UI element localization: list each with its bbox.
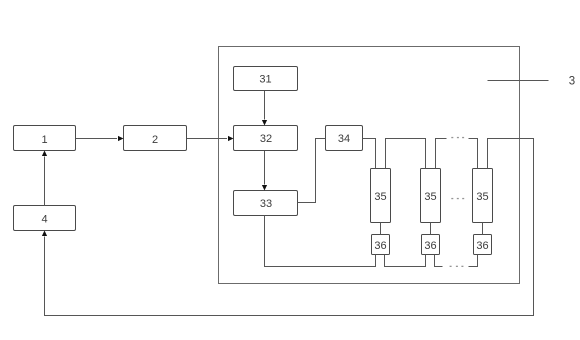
arrowhead into 1 xyxy=(42,151,47,157)
svg-text:4: 4 xyxy=(41,214,47,226)
block 31 xyxy=(234,67,298,91)
wire 34 to 35 first xyxy=(363,139,376,169)
stub 35 first to 36 first xyxy=(380,223,382,235)
wire 33 to 34 xyxy=(298,139,326,203)
svg-text:32: 32 xyxy=(260,133,272,145)
svg-text:1: 1 xyxy=(41,134,47,146)
svg-text:31: 31 xyxy=(259,74,271,86)
svg-text:35: 35 xyxy=(424,191,436,203)
block 33 xyxy=(234,191,298,216)
wire 36 first to 36 second xyxy=(385,255,426,267)
wire 1 to 2 xyxy=(76,138,117,140)
svg-text:34: 34 xyxy=(338,133,350,145)
stub 35 second to 36 second xyxy=(430,223,432,235)
wire 35 first to 35 second xyxy=(386,139,426,169)
svg-text:3: 3 xyxy=(569,76,575,88)
svg-text:36: 36 xyxy=(424,240,436,252)
block 35 first xyxy=(371,169,391,223)
wire ellipsis to 35 third xyxy=(469,139,478,169)
block 36 first xyxy=(372,235,390,255)
block 2 xyxy=(124,126,187,151)
svg-text:36: 36 xyxy=(476,240,488,252)
arrowhead into 2 xyxy=(118,136,124,141)
arrowhead into 32 top xyxy=(262,120,267,126)
ellipsis top xyxy=(451,137,464,138)
arrowhead into 4 bottom xyxy=(42,231,47,237)
enclosure box 3 xyxy=(219,47,520,284)
arrowhead into 32 xyxy=(228,136,234,141)
block 1 xyxy=(14,126,76,151)
block 35 second xyxy=(421,169,441,223)
wire 4 to 1 xyxy=(44,157,46,206)
arrowhead into 33 top xyxy=(262,185,267,191)
wire 2 to 32 xyxy=(187,138,227,140)
svg-text:2: 2 xyxy=(152,134,158,146)
wire ellipsis to 36 third xyxy=(469,255,478,267)
block 36 second xyxy=(422,235,440,255)
feedback wire 35 third to 4 xyxy=(45,139,534,316)
svg-text:35: 35 xyxy=(374,191,386,203)
block 35 third xyxy=(473,169,493,223)
wire 33 to 36 first xyxy=(265,216,376,267)
block 36 third xyxy=(474,235,492,255)
wire 31 to 32 xyxy=(264,91,266,120)
svg-text:33: 33 xyxy=(260,198,272,210)
wire 32 to 33 xyxy=(264,151,266,185)
block 34 xyxy=(326,126,363,151)
block 4 xyxy=(14,206,76,231)
lead line to label 3 xyxy=(488,80,549,82)
stub 35 third to 36 third xyxy=(482,223,484,235)
ellipsis middle xyxy=(451,198,464,199)
wire 35 second toward ellipsis xyxy=(436,139,447,169)
block 32 xyxy=(234,126,298,151)
svg-text:35: 35 xyxy=(476,191,488,203)
wire 36 second toward ellipsis xyxy=(435,255,443,267)
svg-text:36: 36 xyxy=(374,240,386,252)
ellipsis bottom xyxy=(450,266,464,267)
